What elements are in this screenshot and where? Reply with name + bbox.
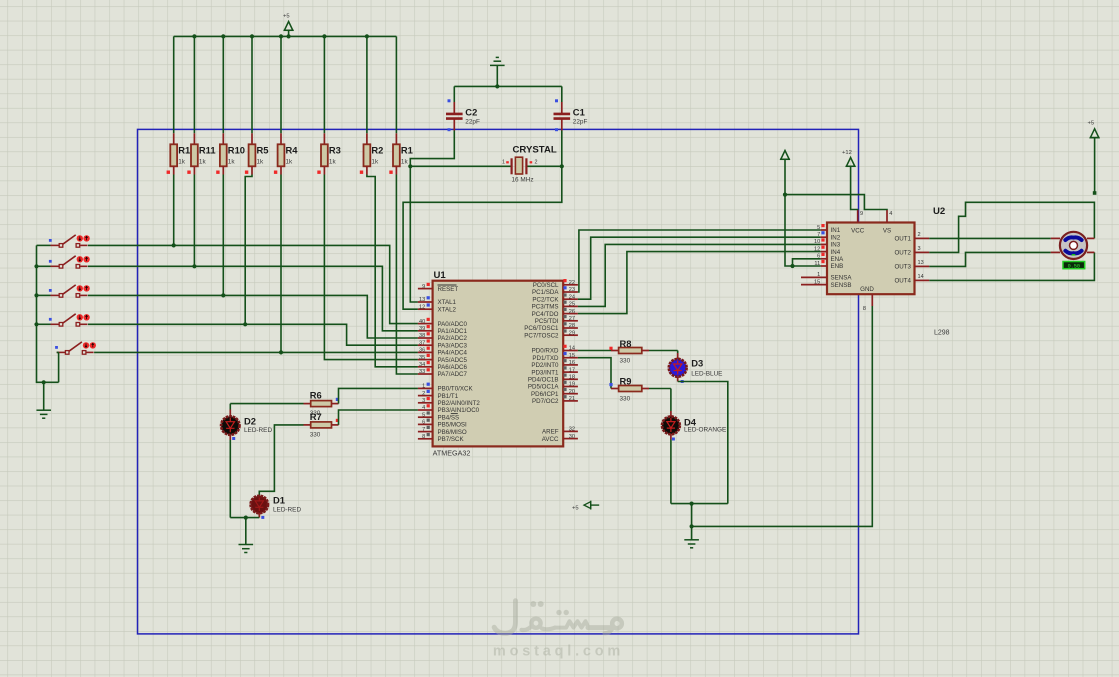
motor M1 bbox=[1051, 232, 1095, 270]
svg-text:C1: C1 bbox=[573, 107, 585, 118]
U2 pin 10 IN3 bbox=[814, 238, 841, 248]
resistor R12 1k bbox=[167, 36, 196, 174]
U2 pin 8 GND bbox=[860, 286, 874, 312]
svg-text:PA2/ADC2: PA2/ADC2 bbox=[438, 335, 468, 342]
svg-text:9: 9 bbox=[422, 284, 425, 290]
svg-text:VCC: VCC bbox=[851, 228, 865, 235]
svg-text:R3: R3 bbox=[329, 145, 341, 156]
wire D1 to R7 bbox=[259, 425, 303, 495]
U1 pin 20 PD6/ICP1 bbox=[531, 388, 578, 398]
svg-text:1k: 1k bbox=[329, 159, 337, 166]
svg-text:D2: D2 bbox=[244, 416, 256, 427]
U2 pin 14 OUT4 bbox=[894, 274, 929, 285]
wire crystal node A to XTAL1 bbox=[410, 166, 418, 302]
svg-text:PD3/INT1: PD3/INT1 bbox=[531, 369, 559, 376]
U1 pin 6 PB5/MOSI bbox=[418, 419, 467, 429]
resistor R8 330 bbox=[609, 338, 649, 365]
switch SW5 bbox=[55, 342, 96, 354]
U2 pin 3 OUT2 bbox=[894, 246, 929, 257]
svg-text:R5: R5 bbox=[257, 145, 269, 156]
U1 pin 18 PD4/OC1B bbox=[528, 374, 578, 384]
svg-text:40: 40 bbox=[419, 319, 425, 325]
svg-text:C2: C2 bbox=[465, 107, 477, 118]
svg-text:7: 7 bbox=[422, 427, 425, 433]
svg-text:PC5/TDI: PC5/TDI bbox=[535, 318, 559, 325]
svg-text:1k: 1k bbox=[371, 159, 379, 166]
svg-text:27: 27 bbox=[569, 316, 575, 322]
U1 pin 30 AVCC bbox=[542, 434, 578, 443]
svg-text:LED-ORANGE: LED-ORANGE bbox=[684, 427, 726, 434]
svg-text:+5: +5 bbox=[283, 14, 290, 20]
wire U1 PC4 to U2 IN4 bbox=[578, 252, 821, 314]
svg-text:R2: R2 bbox=[371, 145, 383, 156]
wire D2 cathode down bbox=[229, 440, 231, 518]
U1 pin 36 PA4/ADC4 bbox=[418, 347, 468, 357]
wire C2 to crystal node A bbox=[410, 131, 454, 167]
svg-text:29: 29 bbox=[569, 330, 575, 336]
wire R4 to switch row 5 bbox=[280, 175, 282, 353]
wire R11 to switch row 2 bbox=[193, 175, 195, 267]
junction ENA ENB bbox=[790, 264, 794, 268]
svg-text:13: 13 bbox=[419, 297, 425, 303]
svg-text:LED-BLUE: LED-BLUE bbox=[691, 371, 722, 378]
wire crystal node B to XTAL2 bbox=[403, 166, 562, 309]
U1 pin 24 PC2/TCK bbox=[532, 293, 578, 303]
svg-text:5: 5 bbox=[422, 412, 425, 418]
svg-text:2: 2 bbox=[535, 160, 538, 166]
wire row2 SW2 to PA1 bbox=[88, 266, 418, 331]
svg-text:19: 19 bbox=[569, 382, 575, 388]
wire OUT3 to motor left bottom bbox=[929, 252, 1051, 266]
U1 pin 8 PB7/SCK bbox=[418, 433, 465, 443]
wire D4 cathode down bbox=[670, 440, 672, 504]
U1 pin 34 PA6/ADC6 bbox=[418, 361, 468, 371]
U1 pin 26 PC4/TDO bbox=[532, 308, 578, 318]
U1 pin 1 PB0/T0/XCK bbox=[418, 383, 474, 393]
svg-text:16 MHz: 16 MHz bbox=[512, 176, 534, 183]
svg-text:+5: +5 bbox=[1088, 121, 1095, 127]
svg-text:PC4/TDO: PC4/TDO bbox=[532, 311, 559, 318]
switch SW2 bbox=[49, 256, 90, 268]
U1 pin 22 PC0/SCL bbox=[533, 279, 578, 289]
junction power ENA ENB bbox=[783, 193, 787, 197]
U1 pin 21 PD7/OC2 bbox=[532, 395, 578, 405]
svg-text:17: 17 bbox=[569, 367, 575, 373]
power +5 top right bbox=[1088, 121, 1100, 195]
svg-text:13: 13 bbox=[918, 260, 924, 266]
svg-text:PB1/T1: PB1/T1 bbox=[438, 393, 459, 400]
svg-text:8: 8 bbox=[863, 306, 866, 312]
wire R8 to D3 bbox=[649, 351, 678, 354]
wire bus to switch rows bbox=[37, 266, 51, 324]
svg-text:15: 15 bbox=[569, 353, 575, 359]
svg-text:PB4/SS: PB4/SS bbox=[438, 414, 460, 421]
U1 pin 5 PB4/SS bbox=[418, 411, 459, 421]
wire U2 GND to ground bbox=[692, 306, 873, 526]
U2 pin 9 VCC bbox=[851, 210, 865, 235]
svg-text:L298: L298 bbox=[934, 330, 950, 337]
svg-text:21: 21 bbox=[569, 396, 575, 402]
crystal X1 CRYSTAL 16 MHz bbox=[410, 145, 562, 184]
svg-text:22: 22 bbox=[569, 280, 575, 286]
svg-text:3: 3 bbox=[422, 398, 425, 404]
svg-text:LED-RED: LED-RED bbox=[273, 507, 301, 514]
junction row3 R10 bbox=[221, 293, 225, 297]
U1 pin 39 PA1/ADC1 bbox=[418, 325, 468, 335]
wire R2 jog to U1 PA6 bbox=[367, 175, 418, 367]
wire row5 SW5 to PA4 bbox=[94, 351, 418, 353]
svg-text:1: 1 bbox=[502, 160, 505, 166]
wire row3 SW3 to PA2 bbox=[88, 295, 418, 338]
svg-text:RESET: RESET bbox=[438, 286, 459, 293]
svg-text:PB3/AIN1/OC0: PB3/AIN1/OC0 bbox=[438, 407, 480, 414]
wire U1 PD0 to R8 bbox=[578, 350, 611, 352]
svg-text:7: 7 bbox=[817, 232, 820, 238]
ground LEDs right bbox=[684, 526, 699, 547]
junction row2 R11 bbox=[192, 264, 196, 268]
junction bus row3 bbox=[34, 293, 38, 297]
resistor R9 330 bbox=[609, 376, 649, 403]
svg-text:39: 39 bbox=[419, 326, 425, 332]
svg-text:1k: 1k bbox=[199, 159, 207, 166]
svg-text:R6: R6 bbox=[310, 390, 322, 401]
U1 pin 4 PB3/AIN1/OC0 bbox=[418, 404, 480, 414]
svg-text:14: 14 bbox=[918, 274, 924, 280]
junction row1 R12 bbox=[172, 243, 176, 247]
svg-text:15: 15 bbox=[814, 279, 820, 285]
resistor R4 1k bbox=[274, 36, 298, 174]
wire capacitor top rail bbox=[454, 85, 562, 87]
wire C1 to crystal node B bbox=[561, 131, 563, 167]
svg-text:22pF: 22pF bbox=[465, 119, 480, 126]
wire D2 to R6 bbox=[230, 404, 303, 410]
svg-text:PD6/ICP1: PD6/ICP1 bbox=[531, 391, 559, 398]
wire row4 SW4 to PA3 bbox=[88, 324, 418, 345]
wire OUT2 staircase to motor right top bbox=[929, 202, 1094, 252]
svg-text:1k: 1k bbox=[401, 159, 409, 166]
svg-text:22pF: 22pF bbox=[573, 119, 588, 126]
junction rail x=194.4 bbox=[192, 34, 196, 38]
svg-text:1k: 1k bbox=[286, 159, 294, 166]
svg-text:U2: U2 bbox=[933, 206, 945, 217]
svg-text:PD2/INT0: PD2/INT0 bbox=[531, 362, 559, 369]
svg-text:D1: D1 bbox=[273, 495, 285, 506]
wire row1 to riser PA0 bbox=[174, 245, 418, 323]
svg-text:PD4/OC1B: PD4/OC1B bbox=[528, 377, 559, 384]
junction bus row2 bbox=[34, 264, 38, 268]
svg-text:PD0/RXD: PD0/RXD bbox=[532, 348, 559, 355]
U1 pin 19 PD5/OC1A bbox=[528, 381, 578, 391]
svg-text:24: 24 bbox=[569, 294, 575, 300]
U2 pin 4 VS bbox=[883, 210, 893, 235]
svg-text:0.50: 0.50 bbox=[1068, 263, 1080, 269]
svg-text:XTAL1: XTAL1 bbox=[438, 299, 457, 306]
svg-text:1k: 1k bbox=[257, 159, 265, 166]
svg-text:8: 8 bbox=[422, 434, 425, 440]
junction LED ground A bbox=[690, 502, 694, 506]
svg-text:PB7/SCK: PB7/SCK bbox=[438, 436, 465, 443]
svg-text:LED-RED: LED-RED bbox=[244, 427, 272, 434]
U1 pin 33 PA7/ADC7 bbox=[418, 368, 468, 378]
U2 pin 1 SENSA bbox=[801, 272, 852, 281]
svg-text:R7: R7 bbox=[310, 411, 322, 422]
power +12 bbox=[842, 150, 856, 166]
svg-text:SENSB: SENSB bbox=[831, 282, 852, 289]
wire to ground mid bbox=[691, 504, 693, 527]
power +5 top-left bbox=[283, 14, 294, 37]
wire R6 to U1 PB0 bbox=[339, 388, 418, 403]
LED D3 LED-BLUE bbox=[669, 353, 723, 383]
svg-text:ENA: ENA bbox=[831, 256, 845, 263]
wire switch common bus bbox=[37, 245, 59, 382]
capacitor C2 22pF bbox=[446, 86, 480, 131]
U2 pin 11 ENB bbox=[814, 260, 843, 270]
svg-text:SENSA: SENSA bbox=[831, 275, 853, 282]
U1 pin 3 PB2/AIN0/INT2 bbox=[418, 397, 480, 407]
U1 pin 35 PA5/ADC5 bbox=[418, 354, 468, 364]
svg-text:2: 2 bbox=[918, 232, 921, 238]
svg-text:33: 33 bbox=[419, 369, 425, 375]
wire power to VS bbox=[785, 160, 887, 211]
svg-text:R11: R11 bbox=[199, 145, 216, 156]
wire D3 cathode down bbox=[678, 382, 728, 504]
ground switches bbox=[36, 382, 51, 418]
LED D2 LED-RED bbox=[221, 410, 272, 441]
junction capacitor rail bbox=[495, 84, 499, 88]
U2 pin 7 IN2 bbox=[817, 231, 841, 241]
U1 pin 14 PD0/RXD bbox=[532, 345, 578, 355]
svg-text:R10: R10 bbox=[228, 145, 245, 156]
wire R3 to U1 PA5 bbox=[324, 175, 418, 360]
wire LED cathodes join bbox=[671, 503, 728, 505]
svg-text:28: 28 bbox=[569, 323, 575, 329]
wire R12 to switch row 1 bbox=[173, 175, 175, 246]
svg-text:GND: GND bbox=[860, 286, 874, 293]
svg-text:20: 20 bbox=[569, 389, 575, 395]
svg-text:PA3/ADC3: PA3/ADC3 bbox=[438, 342, 468, 349]
svg-text:12: 12 bbox=[419, 304, 425, 310]
svg-text:ATMEGA32: ATMEGA32 bbox=[433, 449, 471, 458]
U2 pin 5 IN1 bbox=[817, 224, 841, 234]
U1 pin 28 PC6/TOSC1 bbox=[524, 322, 578, 332]
junction row5 R4 bbox=[279, 350, 283, 354]
svg-text:10: 10 bbox=[814, 239, 820, 245]
svg-text:38: 38 bbox=[419, 333, 425, 339]
U1 pin 29 PC7/TOSC2 bbox=[524, 329, 578, 339]
svg-text:PC1/SDA: PC1/SDA bbox=[532, 289, 559, 296]
sheet border bbox=[138, 129, 859, 634]
svg-text:R8: R8 bbox=[620, 338, 632, 349]
svg-text:330: 330 bbox=[310, 432, 321, 439]
junction rail x=223.3 bbox=[221, 34, 225, 38]
svg-text:5: 5 bbox=[817, 225, 820, 231]
svg-text:OUT3: OUT3 bbox=[894, 264, 911, 271]
U1 pin 27 PC5/TDI bbox=[535, 315, 578, 325]
junction D1 D2 ground bbox=[244, 516, 248, 520]
svg-text:PD1/TXD: PD1/TXD bbox=[532, 355, 559, 362]
wire R7 to U1 PB3 bbox=[339, 410, 418, 425]
svg-text:PA1/ADC1: PA1/ADC1 bbox=[438, 328, 468, 335]
U1 pin 23 PC1/SDA bbox=[532, 286, 578, 296]
ground LEDs left bbox=[239, 518, 254, 553]
U2 pin 12 IN4 bbox=[814, 246, 841, 256]
resistor R7 330 bbox=[304, 411, 340, 439]
U1 pin 12 XTAL2 bbox=[418, 303, 457, 313]
junction crystal node A bbox=[408, 164, 412, 168]
svg-text:23: 23 bbox=[569, 287, 575, 293]
svg-text:1k: 1k bbox=[178, 159, 186, 166]
junction rail x=288.6 bbox=[287, 34, 291, 38]
svg-text:CRYSTAL: CRYSTAL bbox=[513, 145, 557, 156]
svg-text:1: 1 bbox=[422, 384, 425, 390]
U2 pin 6 ENA bbox=[817, 253, 844, 263]
svg-text:PA4/ADC4: PA4/ADC4 bbox=[438, 350, 468, 357]
svg-text:PC3/TMS: PC3/TMS bbox=[532, 304, 559, 311]
svg-text:14: 14 bbox=[569, 346, 575, 352]
svg-text:37: 37 bbox=[419, 340, 425, 346]
svg-text:4: 4 bbox=[889, 211, 892, 217]
junction rail x=366.9 bbox=[365, 34, 369, 38]
junction bus row4 bbox=[34, 322, 38, 326]
wire R1 to U1 PA7 bbox=[396, 175, 418, 375]
svg-text:2: 2 bbox=[422, 391, 425, 397]
junction rail x=252.0 bbox=[250, 34, 254, 38]
junction rail x=324.4 bbox=[322, 34, 326, 38]
svg-text:PC2/TCK: PC2/TCK bbox=[532, 296, 559, 303]
svg-text:PC7/TOSC2: PC7/TOSC2 bbox=[524, 332, 559, 339]
svg-text:35: 35 bbox=[419, 355, 425, 361]
U1 pin 40 PA0/ADC0 bbox=[418, 318, 468, 328]
junction ground left bbox=[42, 380, 46, 384]
wire D1 D2 cathodes join bbox=[230, 517, 259, 519]
U1 ATMEGA32 body bbox=[433, 270, 564, 458]
svg-text:4: 4 bbox=[422, 405, 425, 411]
svg-text:+12: +12 bbox=[842, 150, 852, 156]
svg-text:3: 3 bbox=[918, 246, 921, 252]
resistor R5 1k bbox=[245, 36, 269, 174]
svg-text:36: 36 bbox=[419, 348, 425, 354]
svg-text:mostaql.com: mostaql.com bbox=[493, 644, 624, 660]
svg-text:XTAL2: XTAL2 bbox=[438, 306, 457, 313]
U1 pin 17 PD3/INT1 bbox=[531, 366, 578, 376]
U1 pin 37 PA3/ADC3 bbox=[418, 339, 468, 349]
svg-text:R9: R9 bbox=[620, 376, 632, 387]
svg-text:OUT4: OUT4 bbox=[894, 278, 911, 285]
svg-text:OUT1: OUT1 bbox=[894, 236, 911, 243]
svg-text:1k: 1k bbox=[228, 159, 236, 166]
svg-text:OUT2: OUT2 bbox=[894, 250, 911, 257]
wire OUT1 to motor bbox=[929, 237, 1051, 239]
switch SW3 bbox=[49, 285, 90, 297]
resistor R6 330 bbox=[304, 390, 340, 418]
capacitor C1 22pF bbox=[554, 86, 588, 131]
svg-text:330: 330 bbox=[620, 396, 631, 403]
wire +5 rail bbox=[174, 35, 397, 37]
switch SW4 bbox=[49, 314, 90, 326]
svg-text:9: 9 bbox=[860, 211, 863, 217]
wire R5 jog to switch row 4 bbox=[245, 175, 252, 325]
svg-text:IN4: IN4 bbox=[831, 249, 841, 256]
svg-text:PA6/ADC6: PA6/ADC6 bbox=[438, 364, 468, 371]
svg-text:IN2: IN2 bbox=[831, 234, 841, 241]
wire U1 PC3 to U2 IN3 bbox=[578, 244, 821, 306]
U1 pin 25 PC3/TMS bbox=[532, 301, 578, 311]
U1 pin 16 PD2/INT0 bbox=[531, 359, 578, 369]
wire OUT4 to motor right bottom bbox=[929, 252, 1094, 280]
wire R9 to D4 bbox=[649, 389, 671, 412]
svg-text:PB0/T0/XCK: PB0/T0/XCK bbox=[438, 386, 474, 393]
U1 pin 9 RESET bbox=[418, 283, 458, 293]
svg-text:PB2/AIN0/INT2: PB2/AIN0/INT2 bbox=[438, 400, 481, 407]
svg-text:+5: +5 bbox=[572, 506, 579, 512]
junction rail x=281.0 bbox=[279, 34, 283, 38]
svg-text:D3: D3 bbox=[691, 358, 703, 369]
svg-text:6: 6 bbox=[422, 420, 425, 426]
U1 pin 2 PB1/T1 bbox=[418, 390, 459, 400]
svg-text:PC0/SCL: PC0/SCL bbox=[533, 282, 559, 289]
power arrow U2 left bbox=[780, 151, 790, 160]
svg-text:R4: R4 bbox=[286, 145, 299, 156]
svg-text:12: 12 bbox=[814, 246, 820, 252]
ground above capacitors bbox=[490, 57, 505, 86]
U2 L298 body bbox=[827, 206, 950, 337]
svg-text:IN1: IN1 bbox=[831, 227, 841, 234]
U1 pin 15 PD1/TXD bbox=[532, 352, 578, 362]
svg-text:VS: VS bbox=[883, 228, 891, 235]
svg-text:PB5/MOSI: PB5/MOSI bbox=[438, 422, 468, 429]
svg-text:PA5/ADC5: PA5/ADC5 bbox=[438, 357, 468, 364]
wire U1 PC1 to U2 IN1 bbox=[578, 230, 821, 292]
wire row1 R12 junction to SW1 bbox=[88, 244, 174, 246]
LED D4 LED-ORANGE bbox=[662, 411, 726, 441]
U1 pin 38 PA2/ADC2 bbox=[418, 332, 468, 342]
svg-text:18: 18 bbox=[569, 375, 575, 381]
wire power to ENB bbox=[785, 195, 821, 266]
svg-text:32: 32 bbox=[569, 427, 575, 433]
svg-text:PA7/ADC7: PA7/ADC7 bbox=[438, 371, 468, 378]
svg-text:ENB: ENB bbox=[831, 263, 844, 270]
LED D1 LED-RED bbox=[251, 495, 302, 519]
svg-text:PD7/OC2: PD7/OC2 bbox=[532, 398, 559, 405]
svg-text:16: 16 bbox=[569, 360, 575, 366]
wire U1 PC2 to U2 IN2 bbox=[578, 237, 821, 299]
svg-text:PD5/OC1A: PD5/OC1A bbox=[528, 384, 559, 391]
U1 pin 32 AREF bbox=[542, 427, 578, 436]
svg-text:34: 34 bbox=[419, 362, 425, 368]
svg-text:1: 1 bbox=[817, 272, 820, 278]
wire ENA drop bbox=[793, 259, 821, 266]
svg-text:U1: U1 bbox=[434, 270, 447, 281]
resistor R10 1k bbox=[216, 36, 245, 174]
svg-text:PC6/TOSC1: PC6/TOSC1 bbox=[524, 325, 559, 332]
U2 pin 2 OUT1 bbox=[894, 232, 929, 243]
svg-text:PB6/MISO: PB6/MISO bbox=[438, 429, 467, 436]
U2 pin 15 SENSB bbox=[801, 279, 851, 288]
wire +12 to VCC bbox=[851, 167, 858, 211]
svg-text:AVCC: AVCC bbox=[542, 436, 559, 443]
svg-text:30: 30 bbox=[569, 434, 575, 440]
resistor R1 1k bbox=[389, 36, 413, 174]
svg-text:26: 26 bbox=[569, 309, 575, 315]
junction crystal node B bbox=[560, 164, 564, 168]
junction LED ground B bbox=[690, 524, 694, 528]
resistor R2 1k bbox=[360, 36, 384, 174]
junction row4 R5 bbox=[243, 322, 247, 326]
wire R10 to switch row 3 bbox=[222, 175, 224, 296]
switch SW1 bbox=[49, 235, 90, 247]
wire U1 PD1 to R9 bbox=[578, 358, 611, 389]
resistor R11 1k bbox=[187, 36, 215, 174]
